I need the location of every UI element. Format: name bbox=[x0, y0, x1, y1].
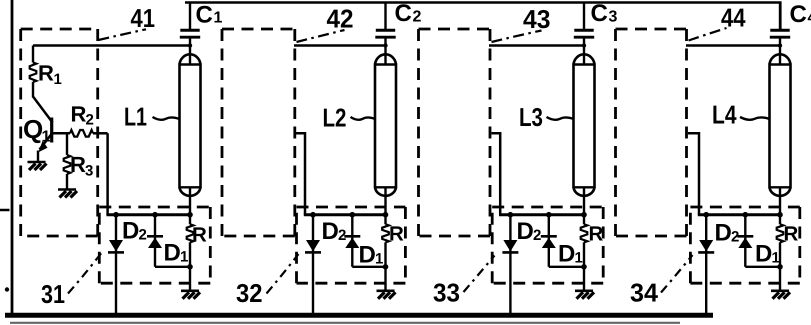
svg-text:1: 1 bbox=[375, 251, 383, 268]
wire stage 4 top horizontal to lamp L4 bbox=[686, 44, 780, 47]
diode D1 stage 1 bbox=[147, 212, 190, 267]
svg-text:34: 34 bbox=[630, 277, 659, 307]
dashed box 33 bbox=[492, 207, 603, 283]
dashed box 44 bbox=[616, 29, 687, 236]
svg-text:1: 1 bbox=[214, 10, 223, 27]
ground R3 bbox=[58, 190, 77, 198]
svg-text:D: D bbox=[122, 218, 139, 245]
svg-text:C: C bbox=[591, 0, 608, 27]
wire stage 4 hook + drop to node bbox=[688, 133, 699, 214]
node line stage 2 bbox=[304, 213, 386, 216]
svg-text:D: D bbox=[558, 241, 575, 268]
svg-text:2: 2 bbox=[731, 229, 739, 246]
leader 33 bbox=[464, 256, 495, 293]
svg-text:43: 43 bbox=[523, 4, 551, 34]
dashed box 34 bbox=[690, 207, 799, 283]
stray ink dot bbox=[5, 287, 9, 291]
node line stage 4 bbox=[698, 213, 780, 216]
svg-text:D: D bbox=[755, 241, 772, 268]
svg-text:C: C bbox=[196, 2, 213, 29]
leader squiggle L4 bbox=[740, 117, 769, 120]
bottom supply bus wire bbox=[5, 313, 713, 318]
svg-text:D: D bbox=[164, 240, 181, 267]
dashed box 32 bbox=[297, 207, 406, 283]
top supply bus wire bbox=[185, 3, 780, 31]
svg-text:31: 31 bbox=[41, 279, 65, 309]
svg-text:D: D bbox=[359, 242, 376, 269]
svg-text:Q: Q bbox=[23, 114, 43, 144]
svg-text:R: R bbox=[70, 152, 86, 177]
svg-text:2: 2 bbox=[338, 227, 346, 244]
leader 31 bbox=[68, 252, 103, 294]
diode D2 stage 2 bbox=[305, 212, 321, 315]
svg-text:R: R bbox=[192, 224, 207, 247]
svg-text:R: R bbox=[38, 61, 54, 86]
lamp L2 bbox=[375, 54, 396, 214]
node junction at C4/L4 top bbox=[778, 43, 782, 47]
base wire + resistor R2 bbox=[53, 130, 108, 137]
node junction at C3/L3 top bbox=[582, 43, 586, 47]
leader 32 bbox=[267, 254, 299, 294]
svg-text:2: 2 bbox=[86, 112, 94, 129]
transistor Q1 bbox=[33, 97, 53, 162]
svg-text:2: 2 bbox=[533, 227, 541, 244]
svg-text:1: 1 bbox=[180, 249, 188, 266]
wire stage 3 top horizontal to lamp L3 bbox=[489, 44, 584, 47]
diode D1 stage 2 bbox=[344, 212, 385, 267]
leader 34 bbox=[661, 255, 693, 293]
node junction at C1/L1 top bbox=[188, 43, 192, 47]
svg-text:R: R bbox=[71, 102, 87, 127]
svg-text:2: 2 bbox=[413, 9, 422, 26]
svg-text:42: 42 bbox=[327, 3, 354, 33]
svg-text:32: 32 bbox=[236, 278, 263, 308]
scan shadow line bbox=[10, 322, 680, 324]
left edge stub wire bbox=[0, 209, 10, 212]
svg-text:L2: L2 bbox=[323, 103, 347, 133]
svg-text:3: 3 bbox=[85, 163, 93, 180]
ground R stage 3 bbox=[575, 291, 594, 299]
diode D1 stage 4 bbox=[737, 212, 780, 267]
leader squiggle L2 bbox=[351, 117, 375, 120]
svg-text:1: 1 bbox=[54, 71, 62, 88]
svg-text:L4: L4 bbox=[712, 100, 737, 130]
diode D1 stage 3 bbox=[541, 212, 584, 267]
capacitor C3 bbox=[574, 3, 594, 66]
left border wire bbox=[11, 0, 14, 318]
leader 41 bbox=[98, 29, 146, 40]
svg-text:3: 3 bbox=[609, 9, 618, 26]
node junction at C2/L2 top bbox=[383, 43, 387, 47]
diode D2 stage 1 bbox=[108, 212, 124, 315]
capacitor C2 bbox=[375, 3, 395, 66]
lamp L1 bbox=[180, 54, 201, 214]
svg-text:D: D bbox=[715, 220, 732, 247]
leader squiggle L1 bbox=[153, 117, 180, 120]
wire stage 1 top horizontal to lamp L1 bbox=[33, 44, 190, 47]
svg-text:C: C bbox=[395, 0, 412, 27]
svg-text:D: D bbox=[517, 218, 534, 245]
svg-text:C: C bbox=[790, 1, 807, 28]
wire stage 2 hook + drop to node bbox=[296, 133, 305, 214]
node line stage 3 bbox=[499, 213, 584, 216]
wire stage 3 hook + drop to node bbox=[492, 133, 501, 214]
leader 43 bbox=[492, 31, 542, 43]
svg-text:R: R bbox=[389, 223, 404, 246]
resistor R stage 4 bbox=[777, 212, 784, 290]
lamp L4 bbox=[770, 54, 791, 214]
wire stage 1 drop R2 to node bbox=[106, 133, 109, 214]
svg-text:D: D bbox=[322, 218, 339, 245]
capacitor C1 bbox=[180, 3, 200, 66]
node line stage 1 bbox=[106, 213, 190, 216]
svg-text:2: 2 bbox=[139, 227, 147, 244]
ground R stage 4 bbox=[771, 291, 790, 299]
svg-text:R: R bbox=[784, 223, 799, 246]
dashed box 42 bbox=[222, 29, 295, 236]
svg-text:L1: L1 bbox=[124, 102, 147, 132]
svg-text:1: 1 bbox=[575, 250, 583, 267]
resistor R stage 1 bbox=[187, 212, 194, 290]
resistor R1 branch bbox=[30, 46, 37, 98]
ground R stage 2 bbox=[377, 291, 396, 299]
diode D2 stage 3 bbox=[502, 212, 518, 315]
ground R stage 1 bbox=[181, 291, 200, 299]
svg-text:33: 33 bbox=[433, 277, 460, 307]
resistor R3 branch bbox=[64, 133, 71, 188]
svg-text:R: R bbox=[589, 223, 604, 246]
ground Q1 emitter bbox=[28, 162, 47, 170]
dashed box 41 bbox=[21, 29, 98, 236]
svg-text:4: 4 bbox=[808, 10, 811, 27]
dashed box 31 bbox=[99, 207, 210, 283]
lamp L3 bbox=[574, 54, 595, 214]
leader 42 bbox=[297, 30, 345, 42]
svg-text:1: 1 bbox=[42, 129, 51, 146]
svg-text:L3: L3 bbox=[519, 102, 543, 132]
leader squiggle L3 bbox=[547, 117, 574, 120]
diode D2 stage 4 bbox=[698, 212, 714, 315]
dashed box 43 bbox=[419, 29, 491, 236]
leader 44 bbox=[689, 28, 727, 41]
capacitor C4 bbox=[770, 3, 790, 66]
resistor R stage 2 bbox=[382, 212, 389, 290]
wire stage 2 top horizontal to lamp L2 bbox=[294, 44, 386, 47]
svg-text:1: 1 bbox=[772, 250, 780, 267]
resistor R stage 3 bbox=[581, 212, 588, 290]
svg-text:41: 41 bbox=[131, 3, 156, 33]
